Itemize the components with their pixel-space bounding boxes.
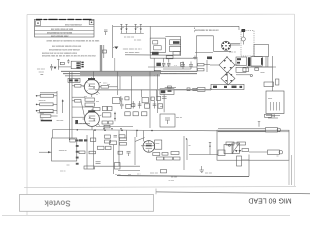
heater bus h3 — [65, 75, 160, 77]
resistor R51 — [170, 46, 181, 51]
svg-text:xxxx xx: xxxx xx — [39, 100, 47, 102]
resistor R80 — [226, 142, 234, 145]
T2 windings — [271, 102, 280, 111]
wire R2 stub — [36, 103, 39, 105]
wire v x135 — [134, 137, 136, 165]
R50 dark bar — [173, 41, 180, 44]
wire HT top bus — [113, 25, 239, 27]
mixer comp extra — [119, 135, 125, 138]
resistor R3 — [40, 109, 53, 112]
small circle term — [250, 74, 252, 76]
wire dash v — [194, 28, 196, 34]
wire term — [236, 74, 250, 76]
junction box above V4 — [68, 78, 80, 82]
node pi2 — [209, 146, 210, 147]
phase inv node — [186, 138, 187, 139]
T2 lower symbols — [266, 116, 280, 119]
standby switch box — [160, 89, 174, 95]
small comp w1 — [187, 88, 190, 91]
wire marks x115 — [114, 112, 116, 122]
wire socket bottom — [213, 50, 231, 52]
heater bus h1 — [61, 70, 197, 72]
wire jack j2 — [249, 151, 268, 153]
wire input v3 — [86, 135, 88, 169]
svg-text:xxx xx: xxx xx — [60, 171, 66, 173]
small comp w2 — [193, 88, 197, 90]
Sovtek box — [20, 195, 154, 212]
wire x103 v — [103, 45, 105, 58]
wire v drop x157 — [157, 74, 159, 113]
wire lt h — [58, 66, 71, 68]
svg-text:xxxxx xxxxx xx xx x: xxxxx xxxxx xx xx x — [123, 48, 143, 50]
controls row comp6 — [153, 101, 157, 109]
wire col v — [56, 91, 58, 114]
comp mains small — [255, 68, 259, 71]
wire drop to V1 — [143, 131, 145, 141]
second row box b — [133, 112, 138, 116]
wire psu h — [204, 64, 210, 66]
svg-text:xxxx xx: xxxx xx — [229, 52, 237, 54]
svg-text:xxx: xxx — [107, 84, 110, 86]
bottom rule tick — [155, 189, 157, 195]
wire arrow stub — [113, 46, 115, 48]
box row above bus a — [102, 121, 108, 124]
cap C10 — [104, 30, 108, 35]
V6 pins — [222, 41, 231, 50]
comp row bottom — [84, 166, 95, 169]
resistor R30 grid — [75, 85, 82, 88]
V1 extra box — [174, 157, 181, 160]
choke box small — [264, 82, 274, 87]
psu top wire — [150, 57, 197, 59]
wire standby h1 — [174, 88, 210, 90]
wire bridge right2 — [247, 66, 273, 68]
bias network box2 — [85, 103, 95, 106]
power switch dashed enclosure — [241, 31, 254, 57]
diode D2 — [125, 24, 127, 33]
node R1 — [36, 95, 38, 97]
wire grid1b — [81, 85, 84, 87]
bus junction dots — [94, 129, 153, 131]
footswitch box — [161, 170, 167, 173]
inner box bottom — [237, 156, 242, 166]
wire main vertical — [112, 25, 114, 58]
row1 marks e — [157, 96, 161, 100]
svg-text:xxxxx xx: xxxxx xx — [59, 150, 68, 152]
bias box blobs — [213, 86, 242, 88]
svg-text:xxx xxxxxxx xxxxxx xxxx-xxx: xxx xxxxxxx xxxxxx xxxx-xxx — [52, 46, 82, 48]
row1 stub e — [156, 90, 158, 96]
wire mains h — [247, 66, 276, 68]
svg-text:xx: xx — [136, 27, 138, 29]
wire screen right — [109, 86, 118, 88]
small box lt — [60, 62, 64, 64]
V1 cathode boxes — [153, 153, 160, 156]
resistor column right box1b — [108, 106, 112, 110]
svg-text:xxx xxxx xxxx-xx xxxx: xxx xxxx xxxx-xx xxxx — [51, 29, 74, 31]
C60 cap inside — [165, 118, 170, 124]
wire V5 bottom — [75, 123, 90, 125]
svg-text:MIG 60 LEAD: MIG 60 LEAD — [248, 197, 291, 204]
V1 label box — [155, 140, 162, 149]
voltage selector box S1 — [150, 38, 165, 52]
svg-text:xxx xxx: xxx xxx — [57, 120, 65, 122]
svg-text:xxxxxx xxx xx xx xxx xxxxxxx x: xxxxxx xxx xx xx xxx xxxxxxx xxxx — [42, 53, 78, 55]
V5 pin stubs — [83, 115, 102, 126]
bus drop x126 — [126, 130, 128, 138]
mixer comp a — [105, 135, 111, 138]
input jacks column — [76, 140, 79, 165]
diode D1 — [120, 24, 122, 33]
comp small r82 — [242, 149, 249, 152]
box mains c — [236, 67, 246, 72]
bias supply box — [211, 84, 244, 89]
resistor R71 — [79, 151, 85, 154]
cap C52 — [127, 152, 131, 157]
wire v x120 — [119, 76, 121, 89]
wire trio lower — [37, 112, 54, 114]
row1 marks b — [125, 97, 129, 100]
second row box c — [142, 112, 147, 116]
left top cluster wire v — [57, 59, 59, 69]
fuse F1 dark blob — [242, 29, 246, 32]
svg-text:xxx: xxx — [67, 165, 70, 167]
svg-text:xx xxx: xx xxx — [169, 180, 175, 182]
svg-text:xxx xxxx: xxx xxxx — [37, 69, 46, 71]
comp row under bus a — [70, 139, 76, 142]
bridge rectifier BR1 — [219, 56, 235, 73]
wire v x113 — [113, 145, 115, 174]
tick pi — [209, 141, 211, 143]
mains entry box — [254, 45, 269, 57]
bottom rule line — [156, 192, 310, 194]
comp below — [166, 56, 173, 59]
small comp x103 — [103, 50, 107, 53]
svg-text:xxxx xxxxxx xxxx: xxxx xxxxxx xxxx — [51, 36, 69, 38]
psu v c — [168, 58, 170, 62]
svg-text:xxx xxx: xxx xxx — [205, 173, 213, 175]
comp above standby — [168, 86, 172, 88]
wire bridge left — [210, 64, 219, 66]
gray vertical bus bar — [100, 45, 102, 74]
input box — [52, 138, 77, 161]
wire v x131 — [131, 76, 133, 104]
V1 cathode boxes2 — [157, 157, 164, 160]
box mains b — [251, 57, 262, 66]
entry box verticals — [265, 57, 267, 68]
wire psu v2 — [206, 60, 208, 72]
label row above frame — [115, 174, 141, 177]
V1 plate load — [164, 157, 173, 160]
selector inner box2 — [154, 46, 162, 50]
wire R4 right — [51, 115, 58, 117]
wire selector v — [149, 26, 151, 58]
svg-text:xxx: xxx — [84, 96, 87, 98]
tick lt2 — [40, 74, 43, 76]
right edge wires — [289, 155, 292, 185]
box mains d — [243, 68, 249, 72]
resistor R1 — [40, 94, 53, 97]
output box inner top line — [217, 131, 289, 133]
comp c51 — [96, 162, 101, 164]
pot box 2 — [106, 146, 112, 149]
V5 inner dots — [89, 117, 95, 121]
svg-text:xxx xx: xxx xx — [176, 117, 183, 119]
wire pi stub — [209, 142, 211, 154]
comp row under bus b — [79, 139, 83, 141]
box row above bus c — [104, 125, 110, 128]
cap C20 electrolytic — [162, 63, 165, 67]
relay diagonal — [232, 143, 240, 153]
resistor R61 — [198, 69, 205, 71]
node R3 — [36, 110, 38, 112]
heater band heavy segment — [80, 72, 160, 75]
comp row mid1 — [171, 152, 179, 155]
terminal dots right — [81, 62, 83, 68]
arrow terminal — [114, 47, 118, 50]
output tube V4 — [84, 79, 99, 94]
rectifier socket box right — [212, 36, 214, 52]
mixer comp c — [105, 140, 111, 143]
matching box right — [113, 98, 121, 104]
diode D20 — [235, 150, 238, 152]
svg-text:xxx xxxx: xxx xxxx — [79, 123, 88, 125]
wire R1 right — [54, 95, 57, 97]
wire psu v1 — [196, 57, 198, 72]
wire bottom box v — [248, 155, 250, 177]
cap C24 — [162, 97, 167, 99]
wire v drop x117 — [117, 72, 119, 95]
wire pi v — [186, 139, 188, 160]
fuse dark bar — [248, 57, 251, 66]
comp blobs bottom — [207, 57, 212, 60]
volume pot box — [98, 146, 105, 149]
wire R3 stub — [36, 110, 39, 112]
small box w3 — [198, 88, 206, 92]
wire h y170 — [118, 170, 140, 172]
resistor column right box1 — [102, 106, 107, 110]
svg-text:xx x: xx x — [137, 174, 141, 176]
V1 electrodes — [144, 141, 152, 153]
bias network box3 — [93, 108, 100, 111]
cap C40 — [50, 64, 53, 71]
resistor R62 vertical — [276, 79, 279, 85]
svg-text:xx xxx: xx xxx — [171, 177, 178, 179]
resistor R60 — [198, 64, 205, 66]
diode D3 — [135, 24, 137, 33]
row1 stub c — [140, 90, 142, 97]
resistor R72 — [89, 151, 96, 154]
wire grid2 — [72, 100, 75, 102]
preamp tube V1 — [143, 141, 155, 153]
wire xw1 — [72, 96, 85, 98]
resistor R73 box — [110, 141, 117, 145]
wire BR1 to bias box — [227, 74, 229, 84]
comp row under bus c — [90, 138, 96, 141]
wire fuse down — [242, 32, 244, 37]
svg-text:xx: xx — [277, 156, 279, 158]
resistor R31 grid — [75, 100, 82, 103]
wire bridge right — [235, 64, 240, 66]
wire socket right1 — [230, 42, 240, 44]
node dots row — [103, 128, 121, 129]
svg-text:xx: xx — [122, 27, 124, 29]
standby blobs — [161, 89, 172, 93]
wire through V1 — [141, 145, 155, 147]
resistor R4 — [40, 115, 51, 118]
cap lt — [67, 59, 69, 63]
heater bus h2 — [63, 73, 197, 75]
relay box — [232, 143, 240, 153]
output transformer T2 — [266, 91, 284, 114]
psu v a — [153, 58, 155, 76]
box mains b bar — [261, 58, 263, 65]
rectifier socket box top — [196, 35, 213, 37]
wire under label — [125, 54, 181, 56]
left long bus v2 — [71, 72, 73, 138]
cap C23 electrolytic — [189, 62, 193, 70]
wire xw2 — [72, 106, 93, 108]
wire xw3 — [72, 116, 85, 118]
svg-text:Sovtek: Sovtek — [44, 199, 71, 208]
diode D21 — [239, 150, 242, 152]
pi coupling box — [218, 150, 225, 156]
node dot w — [210, 88, 212, 90]
wire R2 right — [53, 103, 57, 105]
svg-text:xxxxxxxxxxx xxxx xxxx-xxxxxx: xxxxxxxxxxx xxxx xxxx-xxxxxx — [49, 49, 81, 51]
V4 electrodes — [86, 77, 95, 97]
svg-text:xxxx xxxxxxxxxx: xxxx xxxxxxxxxx — [65, 25, 83, 27]
svg-text:xx xxxx: xx xxxx — [134, 40, 142, 42]
wire v drop x150 — [149, 72, 151, 128]
resistor column right box2 — [102, 113, 111, 117]
wire row h — [96, 126, 133, 128]
controls row comp5 box — [145, 104, 150, 108]
tick top — [57, 59, 59, 61]
psu dark comp — [156, 63, 161, 66]
svg-text:xxxxxxxxxxx xx-xx-xxxxx: xxxxxxxxxxx xx-xx-xxxxx — [47, 33, 73, 35]
svg-text:xx: xx — [96, 94, 98, 96]
psu mid wire — [148, 66, 197, 68]
wire selector top right — [165, 35, 180, 37]
controls row comp2 box — [126, 104, 131, 108]
svg-text:xx xxx xxx: xx xxx xxx — [124, 37, 135, 39]
arrow head input — [48, 151, 52, 153]
long mid bus wire — [53, 130, 218, 131]
box row above bus b — [109, 121, 114, 124]
wire v drop tube1 top — [93, 72, 95, 78]
controls row comp4 — [138, 101, 142, 109]
wire socket right2 — [230, 44, 240, 46]
wire grid1 — [72, 85, 75, 87]
wire R3 right — [53, 110, 57, 112]
bridge rectifier BR2 — [221, 72, 235, 85]
svg-text:xxxx xxx: xxxx xxx — [150, 173, 159, 175]
comp cluster x115 — [115, 163, 121, 170]
wire v x184 — [183, 136, 185, 170]
wire grid2b — [81, 101, 85, 117]
comp above jacks — [265, 114, 275, 117]
V1 grid blob — [146, 145, 152, 146]
node col v2 — [62, 100, 64, 102]
node R2 — [36, 104, 38, 106]
cap C21 electrolytic — [167, 63, 170, 67]
wire trio top — [40, 92, 57, 94]
notes text under title block — [42, 41, 100, 58]
input arrow wire — [39, 151, 52, 153]
controls row comp1 cap — [120, 101, 124, 110]
jack J1 speaker — [266, 128, 281, 132]
diode D4 — [140, 24, 142, 33]
svg-text:xxxxx xxxxxx xx xxxxxxxx xx xx: xxxxx xxxxxx xx xxxxxxxx xx xxxxxxxx xx … — [47, 41, 101, 43]
wire lamp down — [242, 41, 244, 45]
second row box a — [125, 112, 130, 116]
long bottom frame wire — [117, 176, 249, 177]
rectifier socket box left — [195, 36, 197, 57]
V5 electrodes — [89, 109, 96, 130]
speaker wires double — [218, 129, 266, 132]
impedance box — [224, 145, 233, 154]
ground GND2 — [200, 166, 205, 173]
controls row comp7 box — [158, 104, 163, 108]
svg-text:xxxx: xxxx — [155, 143, 159, 145]
terminal strip box — [71, 61, 80, 68]
left long bus v1 — [68, 72, 70, 140]
selector inner box1 — [153, 41, 158, 44]
fuse box small — [173, 52, 180, 55]
row1 cap a — [119, 96, 123, 102]
bias network box1 — [85, 98, 95, 101]
svg-text:xxx xxxxx xxxx: xxx xxxxx xxxx — [125, 52, 140, 54]
terminal strip bars — [76, 62, 80, 68]
wire caps bottom — [163, 68, 191, 70]
mid box C60 — [160, 114, 175, 127]
diagonal wire — [135, 138, 145, 142]
ground bar GND1 — [41, 120, 52, 122]
wire inner h — [242, 159, 250, 161]
bus drop x136 — [136, 130, 138, 137]
psu small comps — [155, 70, 161, 73]
svg-text:xxx: xxx — [96, 101, 99, 103]
box mains a — [236, 57, 247, 65]
V4 top blob — [88, 78, 95, 80]
resistor R32 screen — [101, 86, 109, 89]
octal socket V6 — [221, 41, 230, 50]
junction box blobs — [69, 79, 78, 81]
resistor R50 — [170, 40, 181, 45]
wire pi h — [189, 154, 218, 156]
wire col v2 — [62, 100, 64, 114]
V5 top blob — [88, 110, 95, 112]
selector dark blob — [152, 52, 159, 55]
box mains a marks — [237, 58, 241, 63]
wire to OT — [272, 56, 274, 91]
cap C22 electrolytic — [181, 62, 185, 70]
controls row comp3 — [132, 101, 135, 109]
wire selector right v — [180, 36, 182, 55]
resistor R2 — [40, 103, 53, 106]
small circle node — [228, 144, 230, 146]
right marks — [181, 62, 184, 66]
comp row mid2 — [162, 153, 168, 156]
output tube V5 — [85, 112, 100, 127]
wire socket lower — [195, 51, 213, 53]
row1 marks d — [151, 97, 154, 100]
diode D10 — [54, 67, 57, 70]
heater band lower — [95, 89, 211, 91]
row1 box c — [142, 97, 148, 103]
wire diode bottom bus — [121, 32, 144, 34]
